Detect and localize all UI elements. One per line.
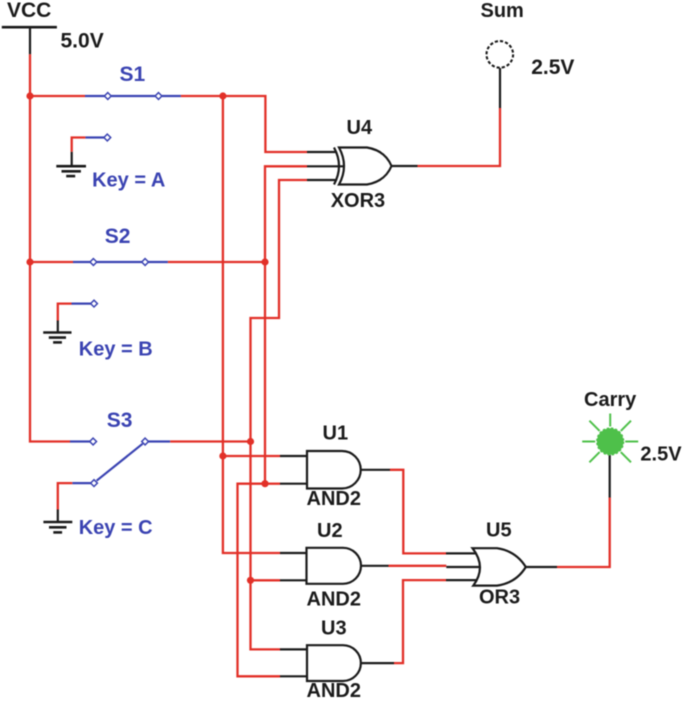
wire: OR3 output to Carry probe: [557, 498, 610, 568]
svg-text:Key = A: Key = A: [92, 170, 165, 192]
or gate U5 OR3: [446, 548, 557, 585]
wire: net C branch to U2 input 2: [251, 579, 281, 581]
xor gate U4 XOR3: [307, 148, 418, 185]
svg-text:5.0V: 5.0V: [61, 29, 104, 52]
node junction net A at U1 input 1: [219, 452, 226, 459]
node junction net B at S2 row: [261, 258, 268, 265]
wire: net B branch to U1 input 2: [265, 483, 280, 485]
svg-text:AND2: AND2: [307, 680, 361, 702]
wire: U3 output to OR3 input 3: [394, 580, 446, 663]
switch S3 (thrown to ground side): [70, 438, 170, 481]
ground (Key = A): [56, 152, 86, 176]
wire: net B vertical trunk XOR input 2 down to U1 input 2: [265, 166, 307, 483]
switch S1 (closed): [85, 93, 181, 100]
switch S1 unused throw to ground: [72, 134, 111, 152]
probe lamp Sum (off): [487, 41, 514, 68]
node junction net C at S3 row: [247, 438, 254, 445]
svg-text:2.5V: 2.5V: [640, 444, 682, 466]
wire: S3 to net C trunk: [170, 440, 250, 442]
switch S2 (closed): [73, 259, 168, 266]
wire: net A vertical trunk down to U2 input 1: [223, 96, 280, 553]
switch S2 unused throw to ground: [58, 300, 98, 320]
power VCC symbol: [2, 0, 57, 54]
and gate U1 AND2: [280, 451, 390, 489]
wire: S2 to net B trunk: [168, 261, 265, 263]
svg-text:U1: U1: [323, 422, 349, 444]
wire: U1 output to OR3 input 1: [390, 470, 446, 554]
svg-text:VCC: VCC: [7, 0, 51, 22]
svg-text:2.5V: 2.5V: [531, 56, 574, 79]
svg-text:U5: U5: [486, 520, 512, 542]
svg-text:XOR3: XOR3: [331, 190, 385, 212]
node junction net C at U2 input 2: [247, 577, 254, 584]
svg-text:AND2: AND2: [307, 589, 361, 611]
wire: rail to S2 switch: [30, 261, 73, 263]
ground (Key = C): [43, 510, 72, 533]
svg-text:S1: S1: [120, 63, 146, 86]
svg-text:S2: S2: [105, 225, 131, 248]
svg-text:Key = B: Key = B: [79, 339, 153, 361]
svg-text:Key = C: Key = C: [79, 517, 153, 539]
wire: net A branch to U1 input 1: [223, 455, 280, 457]
node junction on rail at S1 row: [26, 92, 33, 99]
wire: VCC rail down left side then right to S3: [30, 54, 70, 441]
wire: net B lower trunk to U3 input 2: [238, 484, 281, 677]
svg-text:S3: S3: [107, 409, 133, 432]
svg-text:AND2: AND2: [307, 488, 361, 510]
svg-text:U2: U2: [317, 520, 343, 542]
node junction on rail at S2 row: [26, 258, 33, 265]
svg-text:OR3: OR3: [479, 587, 520, 609]
wire: S1 to net A junction: [181, 95, 223, 97]
and gate U3 AND2: [280, 645, 394, 681]
svg-text:U4: U4: [347, 117, 373, 139]
svg-text:Sum: Sum: [481, 0, 524, 22]
svg-text:U3: U3: [321, 618, 347, 640]
ground (Key = B): [43, 321, 71, 343]
wire: net C up-jog to XOR input 3: [251, 180, 308, 442]
wire: XOR output to Sum probe: [418, 108, 501, 166]
probe lamp Carry (lit, green): [582, 414, 638, 463]
wire: net C vertical trunk down to U3 input 1: [251, 442, 281, 650]
switch S3 throw to ground: [58, 480, 98, 510]
wire: rail to S1 switch: [30, 95, 85, 97]
node junction net B at U1 input 2: [261, 480, 268, 487]
svg-text:Carry: Carry: [584, 389, 637, 411]
and gate U2 AND2: [280, 548, 389, 584]
node junction net A at S1 row: [219, 92, 226, 99]
wire: U2 output to OR3 input 2: [389, 565, 447, 567]
wire: net A S1 row to XOR input 1: [223, 96, 307, 152]
